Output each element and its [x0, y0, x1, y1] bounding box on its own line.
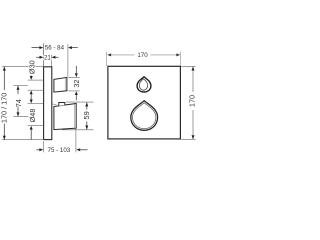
dim Ø48 (lower handle): [28, 97, 57, 140]
dim 21: [36, 55, 58, 67]
dim 56-84: [32, 44, 78, 77]
escutcheon plate (side cross-section): [44, 67, 52, 140]
dim 59 (lower handle height): [62, 102, 93, 130]
upper knob (front) outer drop: [137, 77, 151, 92]
plate front extension: [51, 55, 53, 67]
svg-text:170: 170: [137, 52, 148, 59]
svg-text:75 - 103: 75 - 103: [48, 147, 71, 154]
lower handle top tab: [59, 103, 65, 106]
upper handle front inner line: [64, 78, 66, 91]
lower knob (front) outer drop: [131, 101, 158, 131]
svg-text:32: 32: [72, 80, 81, 88]
svg-text:170 / 170: 170 / 170: [0, 93, 8, 123]
upper handle (side view): [54, 77, 67, 92]
wall extension line (back of plate, extends up to 56-84 dim): [43, 44, 45, 67]
dim 74 (axis to axis): [13, 86, 34, 117]
dim 170/170 (left, plate height): [2, 67, 43, 140]
svg-text:Ø48: Ø48: [28, 109, 37, 123]
svg-text:170: 170: [187, 95, 196, 107]
svg-text:56 - 84: 56 - 84: [45, 45, 65, 52]
right arrow + tail: [68, 46, 72, 49]
dim 32 (upper handle height): [68, 66, 79, 101]
extension lines: [43, 141, 45, 152]
left tail + arrow: [32, 47, 40, 49]
dim 170 (front right): [181, 66, 195, 139]
lower handle front inner line: [73, 104, 75, 127]
lower handle (side view): [54, 104, 76, 130]
upper knob inner egg: [139, 79, 147, 90]
svg-text:Ø30: Ø30: [27, 60, 36, 74]
right extension line down to upper handle front: [67, 44, 69, 77]
front plate square: [108, 66, 180, 139]
dim 75-103 (bottom): [36, 129, 87, 153]
dim 170 (front top): [107, 52, 181, 66]
svg-text:59: 59: [82, 111, 91, 119]
svg-text:74: 74: [14, 99, 23, 107]
svg-text:21: 21: [44, 55, 51, 62]
lower knob inner line: [133, 103, 156, 129]
dim Ø30 (upper handle): [28, 76, 44, 97]
